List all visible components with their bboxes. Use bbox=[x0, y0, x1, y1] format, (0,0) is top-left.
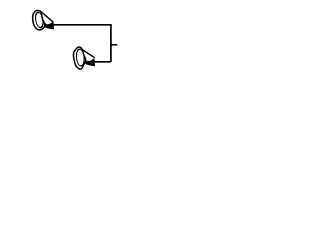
stub tick right of vertical wire bbox=[111, 44, 118, 46]
node B inner ring bbox=[76, 48, 84, 67]
wire bottom horizontal bbox=[94, 61, 111, 63]
node B outer ring (custom closed curve, bottom-middle) bbox=[73, 47, 85, 69]
node B tail (diagonal from ring top-right to arrow base corner) bbox=[81, 49, 94, 58]
arrowhead into node A (concave-top swoosh, points left) bbox=[44, 21, 54, 29]
wire vertical bbox=[110, 24, 112, 62]
node A outer ring (custom closed curve, top-left) bbox=[33, 10, 46, 29]
node A inner ring bbox=[36, 11, 44, 30]
node A ring right-side inner thickening bbox=[43, 21, 46, 28]
node B ring right-side inner thickening bbox=[84, 57, 87, 64]
arrowhead into node B (concave-top swoosh, points left) bbox=[85, 58, 95, 66]
node A tail (diagonal from ring top-right to arrow base corner) bbox=[40, 11, 53, 22]
wire top horizontal bbox=[53, 24, 111, 26]
